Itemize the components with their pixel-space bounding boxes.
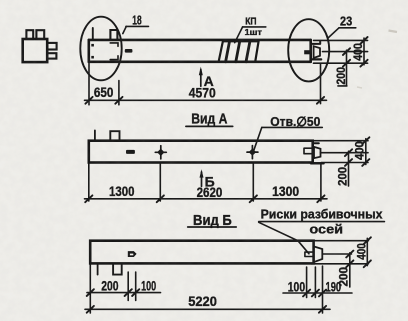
svg-text:400: 400 — [353, 43, 365, 61]
svg-text:200: 200 — [101, 278, 118, 293]
svg-text:23: 23 — [340, 14, 352, 29]
svg-text:5220: 5220 — [188, 294, 217, 309]
svg-text:1300: 1300 — [109, 184, 135, 199]
svg-text:Б: Б — [205, 173, 215, 189]
svg-text:Вид А: Вид А — [191, 111, 228, 127]
svg-text:Риски разбивочных: Риски разбивочных — [261, 207, 383, 221]
svg-text:1шт: 1шт — [245, 27, 263, 37]
svg-text:Отв.∅50: Отв.∅50 — [270, 114, 320, 129]
svg-text:1300: 1300 — [272, 184, 299, 199]
svg-text:осей: осей — [309, 222, 343, 236]
svg-text:100: 100 — [288, 279, 305, 294]
svg-text:КП: КП — [245, 15, 256, 27]
svg-text:650: 650 — [94, 85, 114, 100]
svg-text:400: 400 — [357, 243, 369, 260]
svg-text:Вид Б: Вид Б — [193, 213, 232, 229]
svg-text:200: 200 — [337, 167, 349, 186]
svg-text:200: 200 — [336, 67, 348, 85]
svg-text:200: 200 — [338, 267, 350, 287]
svg-text:400: 400 — [354, 141, 366, 160]
svg-text:100: 100 — [141, 278, 156, 293]
svg-text:18: 18 — [132, 13, 141, 27]
svg-text:4570: 4570 — [189, 86, 216, 101]
